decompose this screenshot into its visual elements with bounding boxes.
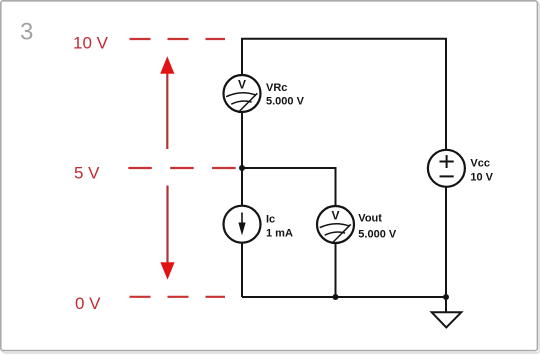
voltmeter VRc [224, 75, 261, 112]
svg-text:5.000 V: 5.000 V [358, 228, 397, 240]
svg-text:5 V: 5 V [74, 164, 100, 183]
svg-text:0 V: 0 V [75, 294, 101, 313]
svg-text:V: V [331, 208, 339, 222]
svg-text:5.000 V: 5.000 V [266, 95, 305, 107]
svg-text:1 mA: 1 mA [266, 227, 293, 239]
wire: left branch VRc bottom to 5V node [241, 113, 243, 207]
wire: 5V node to Vout branch [242, 168, 336, 206]
ground [432, 297, 462, 328]
current source Ic [224, 206, 261, 243]
voltage source Vcc [428, 150, 465, 187]
svg-text:3: 3 [20, 19, 33, 46]
svg-text:Vcc: Vcc [470, 157, 490, 169]
red arrow down (5V to 0V span) [160, 186, 174, 280]
junction node at 5V (left branch) [239, 165, 245, 171]
junction node at bottom rail (Vcc branch) [443, 294, 449, 300]
svg-text:V: V [238, 77, 246, 91]
wire: bottom rail [242, 296, 446, 298]
10V level dashed line [130, 38, 226, 40]
svg-text:VRc: VRc [266, 82, 287, 94]
voltmeter Vout [317, 206, 354, 243]
svg-text:Ic: Ic [266, 214, 275, 226]
wire: top rail from left branch to right branch [242, 39, 446, 150]
wire: left branch Ic bottom to bottom rail [241, 243, 243, 298]
svg-text:10 V: 10 V [73, 34, 109, 53]
junction node at bottom rail (Vout branch) [333, 294, 339, 300]
wire: Vcc bottom to bottom rail [445, 187, 447, 297]
wire: Vout bottom to bottom rail [335, 243, 337, 297]
svg-text:Vout: Vout [358, 213, 382, 225]
5V level dashed line [128, 167, 238, 169]
0V level dashed line [130, 296, 226, 298]
svg-text:10 V: 10 V [470, 171, 493, 183]
red arrow up (5V to 10V span) [160, 56, 174, 149]
